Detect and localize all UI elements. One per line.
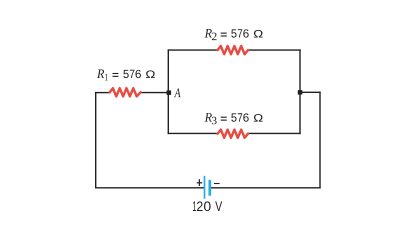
battery polarity minus sign xyxy=(214,183,220,185)
right junction dot xyxy=(298,90,303,95)
wire: lower branch R3 to right corner (y=133.5) xyxy=(248,132,300,134)
wire: R1 to node A (y=92.5) xyxy=(140,92,168,94)
battery B1 negative plate (short) xyxy=(208,180,211,196)
value label R3 = 576 ohm xyxy=(205,113,263,124)
wire: top branch R2 to right corner (y=49.9) xyxy=(248,49,300,51)
wire: branch split vertical through node A (x=168.3) xyxy=(167,50,169,133)
value label R2 = 576 ohm xyxy=(205,29,263,40)
wire: top branch left lead to R2 (y=49.9) xyxy=(168,49,217,51)
value label R1 = 576 ohm xyxy=(97,69,155,80)
battery polarity plus sign xyxy=(197,179,202,186)
wire: right branch vertical through right junction (x=300) xyxy=(299,50,301,133)
wire: left vertical side (x=95.7) xyxy=(95,93,97,188)
wire: left lead of R1 (y=92.5) xyxy=(96,92,110,94)
wire: lower branch left lead to R3 (y=133.5) xyxy=(168,132,217,134)
wire: right junction stub to outer loop (y=92.3) xyxy=(300,91,320,93)
node A label xyxy=(174,89,181,98)
battery B1 positive plate (long) xyxy=(204,176,206,199)
battery voltage label 120 V xyxy=(193,201,222,211)
resistor R2 xyxy=(218,46,248,54)
resistor R3 xyxy=(218,130,248,138)
resistor R1 xyxy=(110,88,141,96)
node A junction dot xyxy=(167,90,172,95)
wire: right vertical side (x=320) xyxy=(319,92,321,188)
wire: bottom right segment from battery - terminal (y=187.6) xyxy=(211,187,320,189)
wire: bottom left segment to battery + terminal (y=187.6) xyxy=(96,187,204,189)
